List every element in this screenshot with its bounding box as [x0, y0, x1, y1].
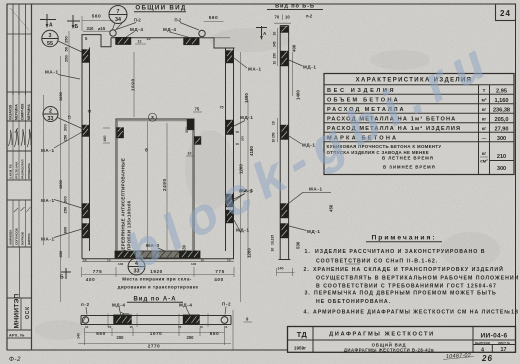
- svg-text:17: 17: [501, 347, 507, 353]
- svg-text:10: 10: [107, 259, 111, 263]
- svg-text:250: 250: [272, 132, 276, 138]
- svg-text:1690: 1690: [244, 93, 249, 103]
- svg-text:П-2: П-2: [134, 18, 141, 23]
- svg-text:70: 70: [275, 15, 280, 20]
- svg-text:МД-1: МД-1: [236, 228, 250, 233]
- svg-text:МД-4: МД-4: [112, 303, 126, 308]
- svg-text:РАЗРАБОТАЛ: РАЗРАБОТАЛ: [21, 160, 25, 179]
- svg-text:2,95: 2,95: [496, 88, 507, 94]
- svg-text:2: 2: [49, 109, 52, 115]
- svg-text:Б: Б: [75, 24, 79, 30]
- svg-text:450: 450: [329, 204, 334, 212]
- svg-text:кг: кг: [482, 107, 486, 112]
- svg-text:кг: кг: [482, 117, 486, 122]
- svg-text:дировании и транспортировке: дировании и транспортировке: [118, 285, 199, 290]
- svg-text:МЕРКИНА: МЕРКИНА: [27, 104, 31, 120]
- svg-text:МД-1: МД-1: [303, 65, 317, 70]
- svg-text:250: 250: [64, 36, 69, 43]
- svg-text:140: 140: [118, 262, 123, 266]
- svg-text:МА-1: МА-1: [41, 198, 55, 203]
- svg-text:1959г: 1959г: [294, 346, 306, 351]
- svg-text:10: 10: [201, 259, 205, 263]
- svg-text:15: 15: [236, 130, 240, 134]
- svg-text:300: 300: [497, 136, 506, 142]
- svg-text:ИИ-04-6: ИИ-04-6: [481, 332, 508, 339]
- svg-text:1400: 1400: [296, 90, 301, 100]
- svg-text:В ЛЕТНЕЕ ВРЕМЯ: В ЛЕТНЕЕ ВРЕМЯ: [382, 155, 434, 160]
- svg-text:1200: 1200: [247, 248, 252, 258]
- svg-text:650: 650: [96, 331, 105, 336]
- svg-text:3.: 3.: [305, 291, 311, 297]
- svg-text:10: 10: [188, 152, 192, 156]
- svg-text:26: 26: [481, 354, 493, 363]
- svg-text:АРМИРОВАНИЕ ДИАФРАГМЫ ЖЕСТКОСТ: АРМИРОВАНИЕ ДИАФРАГМЫ ЖЕСТКОСТИ СМ НА ЛИ…: [313, 310, 519, 316]
- svg-text:МА-1: МА-1: [45, 70, 59, 75]
- svg-text:800: 800: [63, 226, 68, 233]
- svg-text:МД-4: МД-4: [130, 27, 144, 32]
- svg-text:205,0: 205,0: [495, 117, 509, 123]
- svg-text:Ф-2: Ф-2: [9, 356, 21, 363]
- svg-text:НЕ ОБЕТОНИРОВАНА.: НЕ ОБЕТОНИРОВАНА.: [316, 299, 391, 305]
- svg-text:200: 200: [187, 335, 195, 340]
- svg-text:530: 530: [296, 241, 301, 249]
- svg-text:кг: кг: [482, 151, 486, 156]
- svg-text:10: 10: [236, 142, 240, 146]
- svg-text:300: 300: [497, 166, 506, 172]
- svg-text:250: 250: [63, 206, 68, 213]
- svg-text:200: 200: [241, 136, 245, 141]
- svg-text:15: 15: [178, 325, 182, 329]
- svg-text:1690: 1690: [131, 78, 136, 91]
- svg-text:250: 250: [273, 53, 277, 59]
- svg-text:33: 33: [48, 116, 54, 122]
- svg-text:400: 400: [214, 277, 223, 282]
- svg-text:б: б: [145, 148, 148, 153]
- svg-text:310: 310: [87, 26, 95, 31]
- svg-text:4: 4: [481, 347, 484, 353]
- svg-text:2770: 2770: [148, 344, 161, 349]
- svg-text:ДИАФРАГМЫ ЖЕСТКОСТИ: ДИАФРАГМЫ ЖЕСТКОСТИ: [329, 331, 435, 337]
- svg-text:210: 210: [497, 154, 506, 160]
- svg-text:140: 140: [278, 267, 284, 271]
- svg-text:ЖУРКОВ: ЖУРКОВ: [21, 231, 25, 246]
- svg-text:650: 650: [210, 331, 219, 336]
- svg-text:ДИАФРАГМЫ ЖЕСТКОСТИ В-28-42в: ДИАФРАГМЫ ЖЕСТКОСТИ В-28-42в: [344, 348, 434, 353]
- svg-text:7: 7: [117, 9, 120, 15]
- svg-text:СООТВЕТСТВИИ СО СНиП II-В.1-62: СООТВЕТСТВИИ СО СНиП II-В.1-62.: [316, 259, 438, 265]
- svg-text:МА-1: МА-1: [41, 237, 55, 242]
- svg-text:55: 55: [47, 41, 53, 47]
- svg-text:кг: кг: [482, 126, 486, 131]
- svg-text:1690: 1690: [58, 91, 63, 101]
- svg-text:п-2: п-2: [306, 14, 313, 19]
- svg-text:м³: м³: [482, 98, 487, 103]
- svg-text:400: 400: [292, 44, 297, 52]
- svg-text:200: 200: [63, 196, 68, 203]
- svg-text:4.: 4.: [304, 310, 310, 316]
- svg-text:200: 200: [117, 335, 125, 340]
- svg-text:МД-4: МД-4: [163, 27, 177, 32]
- svg-text:МЕРКИНА: МЕРКИНА: [14, 104, 18, 120]
- svg-text:П-2: П-2: [222, 302, 231, 307]
- svg-text:10: 10: [227, 259, 231, 263]
- svg-text:1070: 1070: [150, 331, 163, 336]
- svg-text:10: 10: [285, 15, 290, 20]
- svg-text:СМИРНОВ: СМИРНОВ: [21, 103, 25, 120]
- svg-text:ОСУЩЕСТВЛЯТЬ В ВЕРТИКАЛЬНОМ РА: ОСУЩЕСТВЛЯТЬ В ВЕРТИКАЛЬНОМ РАБОЧЕМ ПОЛО…: [316, 276, 519, 282]
- svg-text:Места опирания при скла-: Места опирания при скла-: [122, 277, 192, 282]
- svg-text:75: 75: [220, 106, 224, 110]
- svg-text:1.: 1.: [305, 249, 311, 255]
- svg-text:560: 560: [209, 15, 218, 20]
- svg-text:см²: см²: [480, 159, 488, 164]
- svg-text:ИЗДЕЛИЕ РАССЧИТАНО И ЗАКОНСТРУ: ИЗДЕЛИЕ РАССЧИТАНО И ЗАКОНСТРУИРОВАНО В: [315, 249, 485, 255]
- svg-text:А.КАМ. ТВ: А.КАМ. ТВ: [8, 164, 12, 179]
- svg-text:2.: 2.: [304, 267, 310, 273]
- svg-text:АКИМОВА: АКИМОВА: [8, 229, 12, 245]
- svg-text:140: 140: [77, 333, 81, 339]
- svg-text:ОСК: ОСК: [25, 306, 31, 319]
- svg-text:34: 34: [115, 17, 121, 23]
- svg-text:Вид по А-А: Вид по А-А: [133, 296, 176, 302]
- svg-text:Вид по Б-Б: Вид по Б-Б: [275, 4, 315, 10]
- svg-text:ОБЩИЙ ВИД: ОБЩИЙ ВИД: [135, 3, 186, 11]
- svg-text:В СООТВЕТСТВИИ С ТРЕБОВАНИЯМИ: В СООТВЕТСТВИИ С ТРЕБОВАНИЯМИ ГОСТ 12504…: [316, 284, 497, 290]
- svg-text:50: 50: [64, 46, 69, 51]
- svg-text:10: 10: [85, 325, 89, 329]
- svg-text:775: 775: [93, 269, 102, 274]
- svg-text:ПРОВЕРКА: ПРОВЕРКА: [27, 162, 31, 179]
- svg-text:250: 250: [64, 55, 69, 62]
- svg-text:15: 15: [68, 115, 72, 119]
- svg-text:10: 10: [271, 248, 275, 252]
- svg-text:12: 12: [138, 40, 142, 44]
- svg-text:МД-1: МД-1: [307, 229, 321, 234]
- svg-text:250: 250: [63, 134, 68, 141]
- svg-text:СОГЛАСОВ: СОГЛАСОВ: [14, 227, 18, 245]
- svg-text:ШИПРО: ШИПРО: [27, 233, 31, 245]
- svg-text:МА-1: МА-1: [248, 67, 262, 72]
- svg-text:560: 560: [92, 14, 101, 19]
- svg-text:1800: 1800: [58, 179, 63, 189]
- svg-text:п-2: п-2: [81, 302, 90, 307]
- svg-text:200: 200: [63, 124, 68, 131]
- svg-text:МНИИТЭП: МНИИТЭП: [14, 294, 21, 329]
- svg-text:27,90: 27,90: [495, 126, 509, 132]
- svg-text:345: 345: [273, 41, 277, 47]
- svg-text:10: 10: [273, 61, 277, 65]
- svg-text:ТД: ТД: [297, 330, 308, 339]
- svg-text:430: 430: [58, 250, 63, 257]
- svg-text:301: 301: [185, 127, 189, 133]
- svg-text:⌀15: ⌀15: [98, 26, 106, 31]
- svg-text:10,135: 10,135: [271, 235, 275, 245]
- svg-text:15: 15: [108, 325, 112, 329]
- svg-text:РГБ.ТО НЧА: РГБ.ТО НЧА: [14, 161, 18, 179]
- svg-text:775: 775: [215, 269, 224, 274]
- svg-text:ВЫПУСКИ: ВЫПУСКИ: [475, 341, 490, 345]
- svg-text:16: 16: [272, 121, 276, 125]
- svg-text:400: 400: [86, 277, 95, 282]
- svg-text:2490: 2490: [162, 178, 167, 191]
- svg-text:П-2: П-2: [175, 18, 182, 23]
- svg-text:15: 15: [130, 325, 134, 329]
- svg-text:МД-4: МД-4: [179, 303, 193, 308]
- svg-text:236,38: 236,38: [493, 107, 510, 113]
- svg-text:75: 75: [195, 107, 200, 112]
- svg-text:А: А: [49, 23, 53, 29]
- svg-text:3: 3: [49, 33, 52, 39]
- svg-text:МА-1: МА-1: [41, 148, 55, 153]
- svg-text:75: 75: [88, 110, 92, 114]
- svg-text:480: 480: [103, 136, 107, 142]
- svg-text:—: —: [482, 136, 487, 141]
- svg-text:1,160: 1,160: [495, 98, 509, 104]
- svg-text:АРХ. №: АРХ. №: [9, 333, 25, 337]
- svg-text:В ЗИМНЕЕ ВРЕМЯ: В ЗИМНЕЕ ВРЕМЯ: [383, 165, 436, 170]
- svg-text:140: 140: [191, 262, 196, 266]
- svg-text:24: 24: [500, 9, 511, 18]
- svg-text:Примечания:: Примечания:: [372, 235, 437, 242]
- svg-text:ОБЩИЙ ВИД: ОБЩИЙ ВИД: [372, 342, 407, 347]
- svg-text:МД-1: МД-1: [240, 115, 254, 120]
- svg-text:10: 10: [273, 32, 277, 36]
- svg-text:МА-1: МА-1: [309, 187, 323, 192]
- svg-text:ХРАНЕНИЕ НА СКЛАДЕ И ТРАНСПОРТ: ХРАНЕНИЕ НА СКЛАДЕ И ТРАНСПОРТИРОВКУ ИЗД…: [313, 265, 504, 273]
- svg-text:ЛИСТ №: ЛИСТ №: [498, 341, 511, 345]
- svg-text:15: 15: [147, 37, 151, 41]
- svg-text:10: 10: [83, 259, 87, 263]
- svg-text:ПЕРЕМЫЧКА ПОД ДВЕРНЫМ ПРОЕМОМ: ПЕРЕМЫЧКА ПОД ДВЕРНЫМ ПРОЕМОМ МОЖЕТ БЫТЬ: [314, 291, 497, 297]
- svg-text:КАЗАКОВ: КАЗАКОВ: [8, 104, 12, 120]
